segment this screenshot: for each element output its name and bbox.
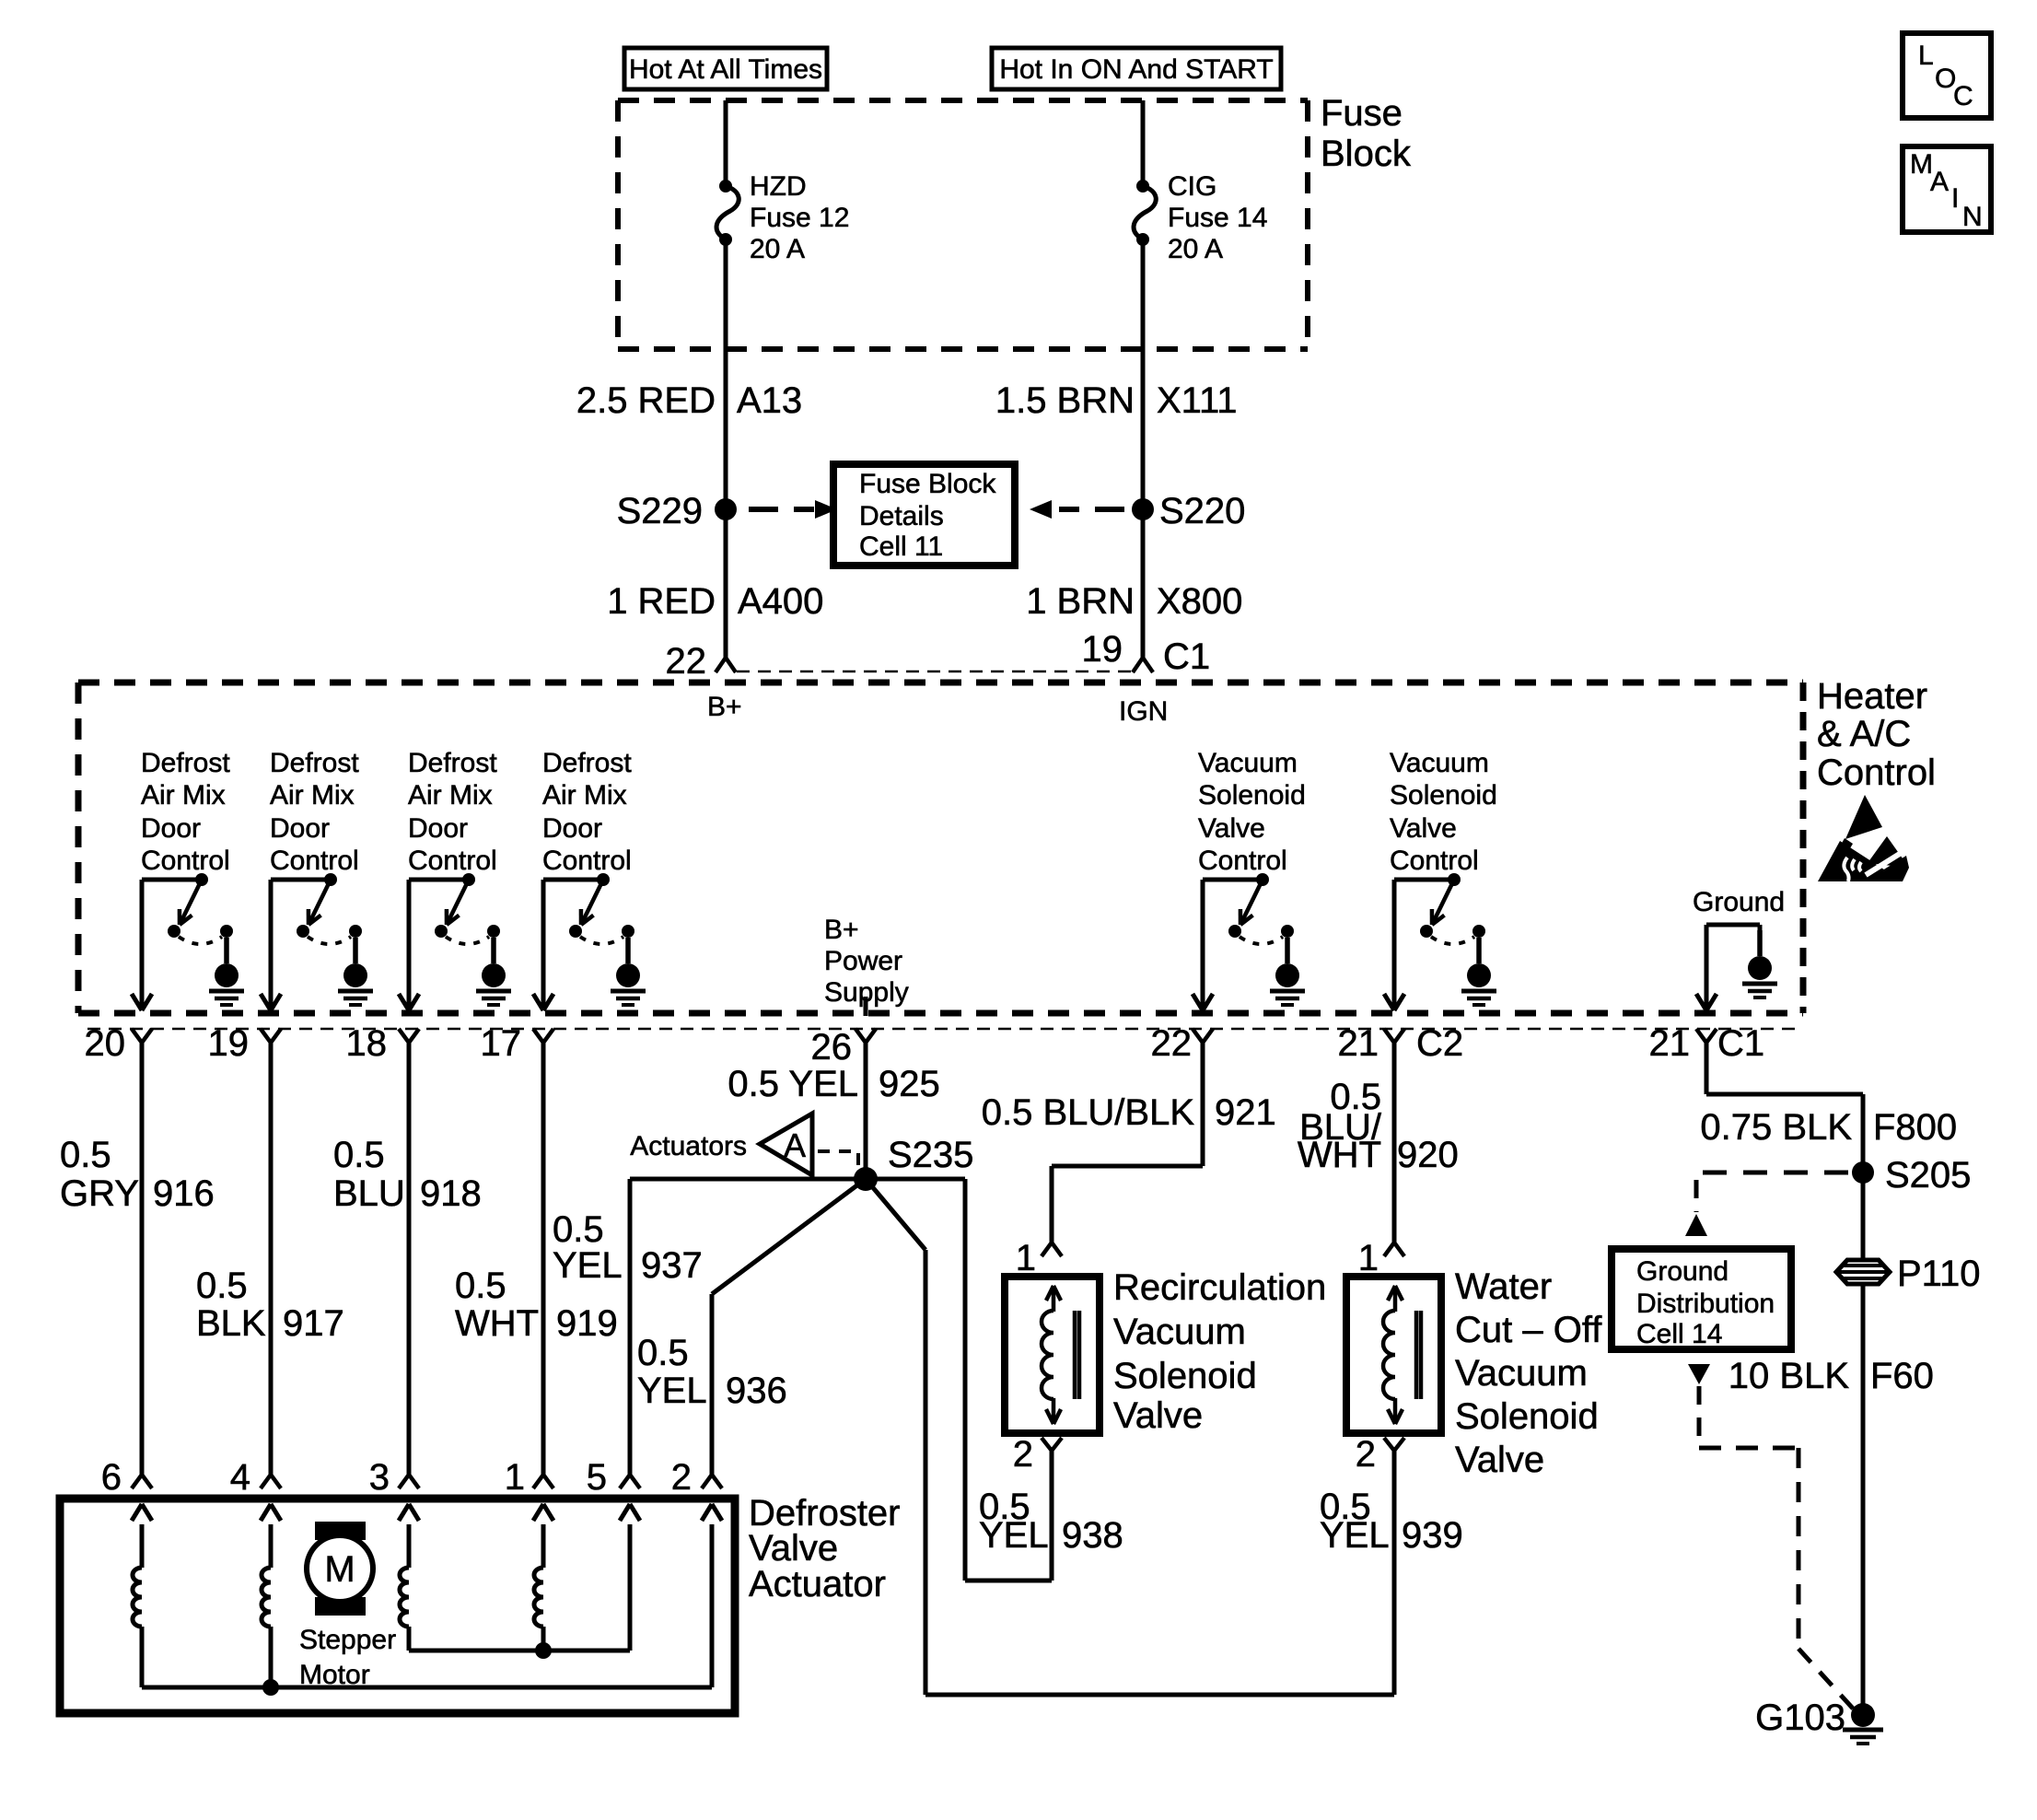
svg-text:Air Mix: Air Mix	[270, 780, 355, 811]
svg-text:CIG: CIG	[1168, 171, 1216, 202]
svg-text:Valve: Valve	[1390, 813, 1457, 844]
svg-text:Solenoid: Solenoid	[1390, 780, 1497, 811]
svg-text:0.5 BLU/BLK: 0.5 BLU/BLK	[982, 1092, 1195, 1133]
svg-text:20 A: 20 A	[1168, 234, 1223, 264]
svg-text:A13: A13	[737, 380, 802, 421]
svg-text:4: 4	[230, 1457, 250, 1498]
svg-text:Power: Power	[824, 946, 902, 976]
svg-text:YEL: YEL	[1320, 1515, 1390, 1556]
svg-text:YEL: YEL	[637, 1371, 707, 1411]
svg-text:21: 21	[1338, 1023, 1379, 1064]
svg-text:19: 19	[208, 1023, 250, 1064]
svg-text:Control: Control	[1198, 846, 1287, 876]
svg-text:HZD: HZD	[750, 171, 807, 202]
svg-text:Hot In ON And START: Hot In ON And START	[999, 54, 1273, 85]
svg-text:917: 917	[283, 1303, 344, 1344]
svg-text:1 RED: 1 RED	[607, 581, 716, 622]
svg-text:Cut – Off: Cut – Off	[1455, 1310, 1602, 1350]
svg-text:0.5: 0.5	[553, 1209, 604, 1250]
svg-text:Control: Control	[542, 846, 632, 876]
svg-text:C2: C2	[1416, 1023, 1463, 1064]
svg-text:BLU: BLU	[333, 1173, 405, 1214]
svg-text:Cell 14: Cell 14	[1636, 1319, 1722, 1349]
svg-text:1.5 BRN: 1.5 BRN	[995, 380, 1135, 421]
svg-text:Control: Control	[141, 846, 230, 876]
svg-text:N: N	[1962, 202, 1983, 232]
svg-text:S220: S220	[1159, 491, 1245, 531]
svg-text:0.5: 0.5	[333, 1135, 385, 1175]
svg-text:0.5: 0.5	[60, 1135, 111, 1175]
svg-text:22: 22	[1151, 1023, 1193, 1064]
svg-text:IGN: IGN	[1119, 696, 1168, 727]
svg-text:Actuator: Actuator	[749, 1564, 886, 1604]
svg-text:0.75 BLK: 0.75 BLK	[1700, 1107, 1852, 1148]
svg-text:Air Mix: Air Mix	[542, 780, 627, 811]
svg-text:B+: B+	[824, 915, 859, 945]
svg-text:Valve: Valve	[1198, 813, 1265, 844]
svg-text:M: M	[324, 1549, 355, 1590]
svg-text:Solenoid: Solenoid	[1455, 1396, 1599, 1437]
svg-text:1: 1	[1016, 1238, 1036, 1278]
svg-text:919: 919	[556, 1303, 618, 1344]
svg-text:Motor: Motor	[299, 1660, 370, 1690]
svg-text:& A/C: & A/C	[1817, 714, 1911, 754]
svg-text:6: 6	[101, 1457, 122, 1498]
svg-text:Fuse Block: Fuse Block	[859, 469, 996, 499]
svg-text:Control: Control	[408, 846, 497, 876]
svg-text:X111: X111	[1157, 380, 1237, 421]
svg-text:2: 2	[1356, 1434, 1376, 1475]
svg-text:939: 939	[1402, 1515, 1463, 1556]
svg-text:G103: G103	[1755, 1697, 1845, 1738]
svg-text:C1: C1	[1717, 1023, 1764, 1064]
svg-text:Solenoid: Solenoid	[1198, 780, 1306, 811]
svg-text:Heater: Heater	[1817, 676, 1927, 717]
svg-text:S235: S235	[888, 1135, 973, 1175]
svg-text:S229: S229	[617, 491, 703, 531]
svg-text:2.5 RED: 2.5 RED	[576, 380, 716, 421]
svg-text:F800: F800	[1873, 1107, 1957, 1148]
svg-text:Stepper: Stepper	[299, 1625, 396, 1655]
svg-text:925: 925	[879, 1064, 940, 1104]
svg-text:Door: Door	[542, 813, 602, 844]
svg-text:Actuators: Actuators	[630, 1131, 747, 1161]
svg-text:Valve: Valve	[749, 1528, 838, 1569]
svg-text:X800: X800	[1157, 581, 1242, 622]
svg-text:Defrost: Defrost	[542, 748, 632, 778]
svg-text:Cell 11: Cell 11	[859, 531, 943, 562]
svg-text:Control: Control	[1817, 752, 1936, 793]
svg-text:26: 26	[811, 1027, 853, 1067]
svg-text:1 BRN: 1 BRN	[1026, 581, 1135, 622]
svg-text:Ground: Ground	[1636, 1256, 1729, 1287]
svg-text:22: 22	[666, 641, 707, 682]
svg-text:Fuse 14: Fuse 14	[1168, 203, 1267, 233]
svg-text:Control: Control	[1390, 846, 1479, 876]
svg-text:937: 937	[641, 1245, 703, 1286]
svg-text:1: 1	[505, 1457, 525, 1498]
svg-text:Vacuum: Vacuum	[1113, 1312, 1246, 1352]
svg-text:0.5: 0.5	[637, 1333, 689, 1373]
svg-text:YEL: YEL	[553, 1245, 623, 1286]
svg-text:5: 5	[587, 1457, 607, 1498]
svg-text:A: A	[784, 1126, 806, 1164]
svg-text:Vacuum: Vacuum	[1455, 1353, 1588, 1394]
svg-text:0.5 YEL: 0.5 YEL	[727, 1064, 858, 1104]
svg-text:Fuse: Fuse	[1321, 93, 1403, 134]
svg-text:Defrost: Defrost	[270, 748, 359, 778]
svg-text:20 A: 20 A	[750, 234, 805, 264]
svg-text:3: 3	[369, 1457, 390, 1498]
svg-text:Air Mix: Air Mix	[408, 780, 493, 811]
svg-text:GRY: GRY	[60, 1173, 139, 1214]
svg-text:C: C	[1953, 81, 1973, 111]
svg-text:Recirculation: Recirculation	[1113, 1267, 1326, 1308]
svg-text:Fuse 12: Fuse 12	[750, 203, 849, 233]
svg-text:Distribution: Distribution	[1636, 1289, 1775, 1319]
svg-text:17: 17	[481, 1023, 522, 1064]
svg-text:Vacuum: Vacuum	[1390, 748, 1489, 778]
svg-text:Valve: Valve	[1113, 1395, 1203, 1436]
svg-text:0.5: 0.5	[196, 1266, 248, 1306]
svg-text:18: 18	[346, 1023, 388, 1064]
svg-text:0.5: 0.5	[455, 1266, 506, 1306]
svg-text:WHT: WHT	[1298, 1135, 1381, 1175]
svg-text:1: 1	[1358, 1238, 1379, 1278]
svg-text:Door: Door	[408, 813, 468, 844]
svg-text:Solenoid: Solenoid	[1113, 1356, 1257, 1396]
svg-text:L: L	[1918, 41, 1934, 71]
svg-text:BLK: BLK	[196, 1303, 266, 1344]
svg-text:936: 936	[726, 1371, 787, 1411]
svg-text:WHT: WHT	[455, 1303, 539, 1344]
svg-text:916: 916	[153, 1173, 215, 1214]
svg-text:Valve: Valve	[1455, 1440, 1544, 1480]
svg-text:21: 21	[1649, 1023, 1691, 1064]
svg-text:Air Mix: Air Mix	[141, 780, 226, 811]
svg-text:S205: S205	[1885, 1155, 1971, 1196]
svg-text:938: 938	[1062, 1515, 1123, 1556]
svg-text:20: 20	[85, 1023, 126, 1064]
svg-text:918: 918	[420, 1173, 482, 1214]
svg-text:P110: P110	[1897, 1254, 1980, 1294]
svg-text:921: 921	[1215, 1092, 1276, 1133]
svg-text:920: 920	[1397, 1135, 1459, 1175]
svg-text:Water: Water	[1455, 1266, 1552, 1307]
svg-text:B+: B+	[707, 692, 742, 722]
svg-text:YEL: YEL	[979, 1515, 1049, 1556]
svg-text:2: 2	[671, 1457, 692, 1498]
svg-text:I: I	[1951, 183, 1959, 214]
svg-text:2: 2	[1013, 1434, 1033, 1475]
svg-text:Control: Control	[270, 846, 359, 876]
svg-text:19: 19	[1082, 629, 1123, 670]
svg-text:Door: Door	[270, 813, 330, 844]
svg-text:A: A	[1930, 167, 1949, 197]
svg-text:Details: Details	[859, 501, 944, 531]
svg-text:Ground: Ground	[1693, 887, 1785, 917]
svg-text:10 BLK: 10 BLK	[1729, 1356, 1850, 1396]
svg-text:Defrost: Defrost	[408, 748, 497, 778]
svg-text:A400: A400	[738, 581, 823, 622]
svg-text:Defrost: Defrost	[141, 748, 230, 778]
svg-text:Hot At All Times: Hot At All Times	[629, 54, 822, 85]
svg-text:Vacuum: Vacuum	[1198, 748, 1298, 778]
svg-text:F60: F60	[1870, 1356, 1934, 1396]
svg-text:Door: Door	[141, 813, 201, 844]
svg-text:C1: C1	[1163, 636, 1210, 677]
svg-text:Block: Block	[1321, 134, 1412, 174]
